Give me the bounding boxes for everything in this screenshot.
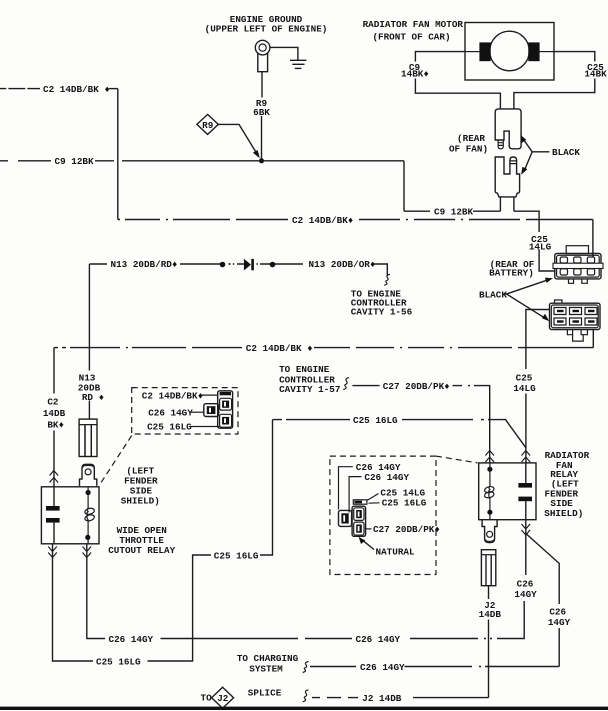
label RADIATOR FAN RELAY LEFT FENDER SIDE SHIELD (544, 450, 589, 519)
svg-text:C2 14DB/BK ♦: C2 14DB/BK ♦ (246, 343, 313, 354)
svg-text:C26: C26 (517, 578, 534, 589)
wire vertical C2 14DB/BK (117, 89, 119, 220)
svg-text:C25 16LG: C25 16LG (214, 550, 259, 561)
svg-text:J2: J2 (217, 693, 229, 704)
ground symbol (270, 47, 306, 68)
svg-text:R9: R9 (202, 120, 214, 131)
label RADIATOR FAN MOTOR (363, 19, 464, 43)
wire diagonal relay2 to C26 riser right (526, 534, 559, 667)
arrow BLACK to battery connectors (504, 278, 553, 322)
relay WOT box (41, 487, 99, 544)
wire C2 14DB/BK top left (0, 88, 118, 90)
svg-text:6BK: 6BK (253, 107, 270, 118)
svg-text:BLACK: BLACK (479, 289, 507, 300)
svg-text:14BK: 14BK (584, 69, 607, 80)
connector pins left fender box (204, 391, 233, 428)
wire N13 20DB/RD horizontal (89, 263, 303, 265)
wire C2 14DB/BK long horizontal (118, 219, 593, 221)
svg-text:14DB: 14DB (43, 408, 66, 419)
svg-text:(FRONT OF CAR): (FRONT OF CAR) (372, 32, 450, 43)
node junction R9 on C9 12BK (259, 158, 264, 163)
arrow chevrons down below WOT relay (48, 547, 91, 558)
svg-text:C25 16LG: C25 16LG (147, 421, 192, 432)
dashed diagonal box2 to radiator fan relay (436, 456, 478, 463)
relay radiator fan box (479, 463, 536, 520)
svg-text:14LG: 14LG (513, 383, 536, 394)
wire C25 16LG riser (148, 420, 273, 661)
connector battery lower (550, 300, 601, 341)
label C26 14GY under relay2 (514, 578, 537, 600)
wire down to battery connector top (592, 220, 594, 258)
wire R9 6BK from ring terminal to junction (261, 72, 264, 161)
svg-text:CAVITY 1-57: CAVITY 1-57 (279, 384, 340, 395)
svg-text:14GY: 14GY (514, 589, 537, 600)
arrow from R9 diamond to junction (218, 124, 259, 158)
splice symbol R9 diamond (197, 114, 218, 134)
wire battery lower connector left to C25 14LG (526, 310, 550, 463)
leader C25 to connector (190, 426, 220, 428)
wire WOT relay left pin down (53, 544, 94, 661)
wire N13 to engine controller with break (374, 264, 390, 285)
break symbol charging (303, 662, 309, 673)
svg-text:C25 16LG: C25 16LG (382, 498, 427, 509)
label C9 14BK (401, 62, 429, 79)
wire J2 14DB down (488, 586, 490, 698)
connector natural pins (339, 500, 367, 537)
label TO ENGINE CONTROLLER CAVITY 1-56 (351, 289, 413, 318)
coil WOT relay (84, 487, 95, 544)
svg-text:C26 14GY: C26 14GY (360, 662, 405, 673)
label ENGINE GROUND (205, 14, 328, 35)
svg-text:CAVITY 1-56: CAVITY 1-56 (351, 306, 413, 317)
svg-text:C9 12BK: C9 12BK (434, 206, 473, 217)
node splice dot right (270, 262, 276, 268)
label TO CHARGING SYSTEM (237, 653, 299, 675)
leader C26 to connector (191, 411, 204, 413)
label REAR OF BATTERY (489, 259, 535, 279)
svg-text:OF FAN): OF FAN) (449, 144, 488, 155)
svg-text:BATTERY): BATTERY) (489, 268, 534, 279)
leader C26 first (339, 467, 353, 510)
ring terminal engine ground (255, 40, 270, 71)
label C25 14LG lower (513, 373, 536, 394)
svg-text:C2 14DB/BK♦: C2 14DB/BK♦ (292, 215, 353, 226)
motor M1 radiator fan motor (465, 23, 554, 81)
svg-text:C9 12BK: C9 12BK (55, 156, 94, 167)
svg-text:SHIELD): SHIELD) (121, 495, 160, 506)
wire C2 14DB/BK lower horizontal (54, 347, 593, 349)
arrow chevrons above radiator fan relay (485, 451, 530, 463)
wire relay2 cap pin down chevrons (522, 520, 531, 575)
svg-text:C2 14DB/BK ♦: C2 14DB/BK ♦ (43, 84, 110, 95)
svg-text:SHIELD): SHIELD) (544, 508, 583, 519)
label TO ENGINE CONTROLLER CAVITY 1-57 (279, 364, 340, 395)
svg-text:(REAR: (REAR (457, 133, 485, 144)
fuse J2 14DB (481, 550, 495, 586)
svg-text:14LG: 14LG (529, 242, 552, 253)
svg-text:TO: TO (201, 693, 213, 704)
svg-text:BK♦: BK♦ (47, 420, 64, 431)
label N13 20DB RD (78, 373, 104, 404)
svg-text:TO CHARGING: TO CHARGING (237, 653, 299, 664)
svg-text:SYSTEM: SYSTEM (249, 664, 283, 675)
break symbol splice (303, 690, 309, 702)
wire N13 vertical (88, 264, 90, 419)
wire C2 14DB BK vertical to WOT relay (53, 348, 55, 487)
label C25 14LG upper (529, 234, 552, 253)
svg-text:SPLICE: SPLICE (248, 687, 282, 698)
wire fan connector stems (500, 197, 555, 271)
wire C25 16LG upper horizontal (273, 420, 526, 448)
wire J2 14DB bottom (312, 697, 489, 699)
svg-text:C2 14DB/BK♦: C2 14DB/BK♦ (142, 390, 203, 401)
svg-text:(UPPER LEFT OF ENGINE): (UPPER LEFT OF ENGINE) (205, 24, 328, 35)
svg-text:CUTOUT RELAY: CUTOUT RELAY (108, 545, 175, 556)
leader C25 14LG (367, 494, 379, 501)
arrow chevrons up above WOT relay left (50, 471, 59, 483)
svg-text:14GY: 14GY (548, 617, 571, 628)
leader C27 (366, 528, 372, 530)
capacitor contacts WOT relay (46, 487, 60, 544)
svg-text:C25 16LG: C25 16LG (96, 656, 141, 667)
splice symbol J2 diamond (212, 687, 234, 708)
wire motor right lead C25 14BK (514, 52, 595, 109)
svg-text:C26 14GY: C26 14GY (356, 634, 401, 645)
wire C9 12BK second segment (404, 210, 500, 212)
svg-text:C27 20DB/PK♦: C27 20DB/PK♦ (383, 381, 450, 392)
leader C25 16LG (369, 502, 380, 504)
svg-text:C26 14GY: C26 14GY (364, 472, 409, 483)
coil radiator fan relay (484, 463, 495, 520)
svg-text:C26 14GY: C26 14GY (109, 634, 154, 645)
svg-text:N13 20DB/OR♦: N13 20DB/OR♦ (309, 259, 376, 270)
label R9 6BK (253, 98, 270, 118)
leader C26 second (349, 477, 361, 513)
label WIDE OPEN THROTTLE CUTOUT RELAY (108, 525, 175, 556)
label C26 14GY right column (548, 607, 571, 628)
leader C2 to connector (201, 394, 218, 396)
terminal spade above WOT relay (80, 464, 97, 486)
wire C9 12BK corner down (403, 161, 405, 211)
wire C9 12BK horizontal (0, 160, 404, 162)
svg-text:J2 14DB: J2 14DB (362, 693, 401, 704)
svg-text:NATURAL: NATURAL (376, 546, 415, 557)
svg-text:BLACK: BLACK (552, 147, 580, 158)
wire C26 14GY to charging (310, 666, 559, 668)
label J2 14DB under fuse (479, 600, 502, 620)
arrow NATURAL to connector (359, 537, 374, 550)
capacitor contacts radiator fan relay (518, 463, 532, 520)
svg-text:RADIATOR FAN MOTOR: RADIATOR FAN MOTOR (363, 19, 464, 30)
dashed box connector natural (330, 456, 436, 574)
svg-text:C27 20DB/PK♦: C27 20DB/PK♦ (373, 524, 440, 535)
connector battery upper (rear of battery) (553, 246, 603, 284)
border bottom black bar (0, 707, 608, 710)
connector fan lower half (495, 157, 519, 197)
wire WOT relay coil pin down (87, 544, 105, 639)
label C2 14DB BK (43, 397, 66, 431)
label LEFT FENDER SIDE SHIELD (121, 466, 160, 507)
wire motor left lead C9 14BK (415, 52, 500, 109)
label REAR OF FAN (449, 133, 488, 155)
svg-text:C2: C2 (47, 397, 59, 408)
wire battery lower connector right to C2 line (592, 330, 594, 348)
wire C27 20DB/PK (343, 378, 490, 463)
svg-text:RD ♦: RD ♦ (82, 392, 104, 403)
diode D1 (244, 259, 254, 271)
svg-text:C26 14GY: C26 14GY (148, 408, 193, 419)
dashed diagonal box1 to WOT relay (100, 436, 132, 485)
arrow BLACK to upper fan connector (520, 135, 549, 175)
label C25 14BK (584, 62, 607, 79)
svg-text:C25 16LG: C25 16LG (353, 415, 398, 426)
svg-text:14DB: 14DB (479, 609, 502, 620)
svg-text:14BK♦: 14BK♦ (401, 69, 429, 80)
svg-text:N13 20DB/RD♦: N13 20DB/RD♦ (111, 259, 178, 270)
wire C26 14GY long horizontal (161, 638, 353, 640)
connector fan upper half (495, 109, 521, 149)
node splice dot left (220, 262, 226, 268)
terminal spade below radiator fan relay (482, 520, 497, 543)
fuse N13 (79, 419, 97, 456)
dashed box connector left fender (132, 388, 238, 434)
